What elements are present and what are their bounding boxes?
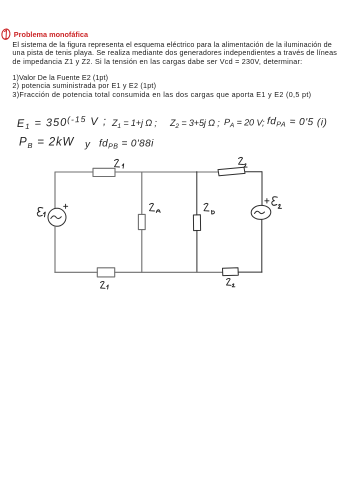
- resistor Z1 (bottom line impedance): [97, 268, 114, 277]
- label Z̄2 (bottom): [227, 278, 235, 286]
- title: Problema monofáfica: [14, 30, 88, 39]
- handwritten line 2: PB = 2kW y fdPB = 0'88i: [19, 137, 154, 151]
- polarity + of E2: [265, 199, 269, 203]
- svg-text:Z1 = 1+j Ω ;: Z1 = 1+j Ω ;: [111, 118, 157, 130]
- wire bottom-right segment: [238, 271, 262, 273]
- wire bottom-left segment: [55, 271, 98, 273]
- label Z̄A: [150, 203, 161, 212]
- svg-text:PB = 2kW: PB = 2kW: [19, 137, 75, 150]
- wire left vertical upper: [54, 172, 56, 208]
- wire right vertical lower: [261, 220, 263, 273]
- label Z̄B: [204, 203, 214, 214]
- resistor Z2 (bottom, hand-drawn): [223, 268, 239, 276]
- source E1 (AC): [48, 208, 66, 226]
- node branch A vertical lower: [141, 230, 143, 273]
- label E2: [272, 197, 282, 209]
- load ZB (hand-drawn): [193, 215, 200, 231]
- node branch A vertical upper: [141, 172, 143, 214]
- svg-text:y: y: [84, 140, 91, 151]
- label Z̄1 (bottom): [101, 281, 109, 289]
- wire right vertical upper: [261, 172, 263, 206]
- svg-text:PA = 20 V;: PA = 20 V;: [224, 117, 265, 130]
- label E1: [37, 208, 45, 217]
- label Z̄1 (top): [115, 159, 124, 168]
- wire bottom middle: [115, 271, 223, 273]
- numbered list: [12, 73, 108, 82]
- handwritten line 1: E1 = 350∠-15 V ; Z1 = 1+jΩ ; Z2 = 3+5jΩ ; PA = 20V ; fdPA = 0'5(i): [17, 113, 328, 131]
- node branch B vertical upper (hand-drawn): [196, 172, 198, 215]
- wire left vertical lower: [54, 226, 56, 272]
- label Z̄2 (top): [239, 157, 248, 167]
- paragraph: [12, 40, 331, 49]
- resistor Z2 (top-right, hand-drawn): [218, 167, 245, 176]
- svg-text:E1 = 350(-15 V ;: E1 = 350(-15 V ;: [17, 113, 107, 131]
- source E2 (AC, hand-drawn ellipse): [251, 205, 271, 220]
- svg-text:fdPA = 0'5 (i): fdPA = 0'5 (i): [267, 116, 328, 130]
- wire top-right segment: [245, 171, 262, 173]
- svg-text:fdPB = 0'88i: fdPB = 0'88i: [99, 139, 154, 151]
- svg-text:Z2 = 3+5j Ω ;: Z2 = 3+5j Ω ;: [169, 118, 220, 130]
- node branch B vertical lower: [196, 230, 198, 272]
- wire top middle: [115, 171, 218, 173]
- load ZA: [138, 214, 145, 229]
- red circled 1 marker: [1, 28, 11, 40]
- resistor Z1 (top-left line impedance): [93, 168, 115, 176]
- wire top-left segment: [55, 171, 93, 173]
- polarity + of E1: [64, 204, 68, 208]
